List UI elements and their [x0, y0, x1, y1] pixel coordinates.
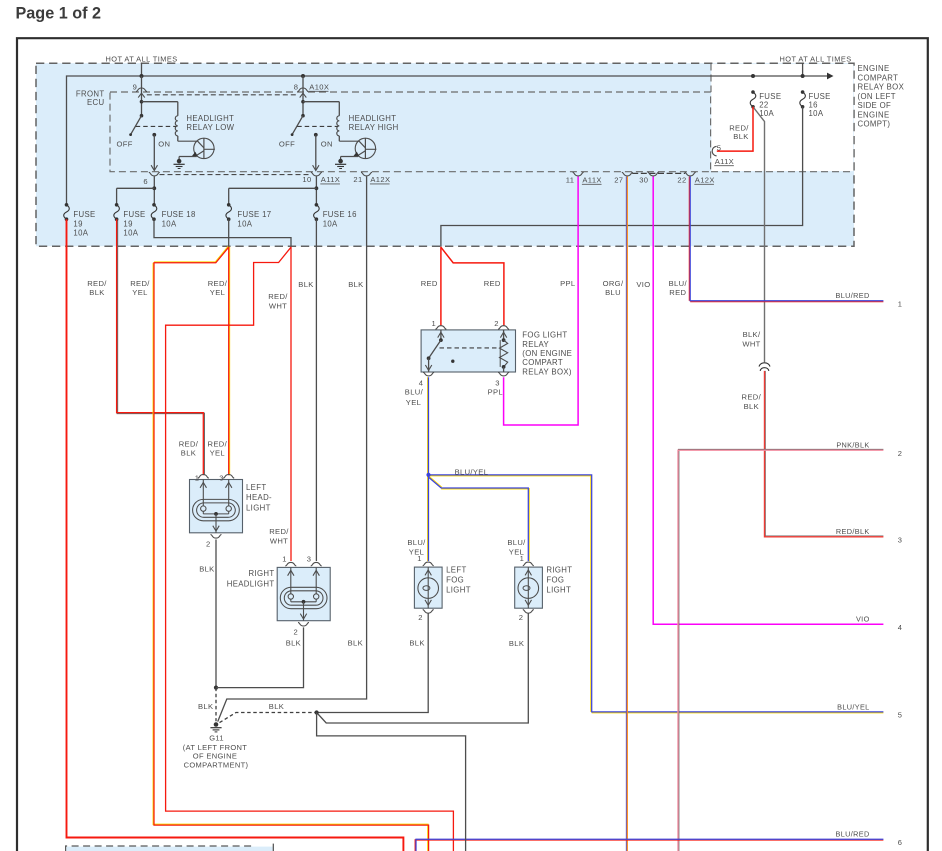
svg-text:BLU/: BLU/	[669, 279, 688, 288]
svg-text:BLK: BLK	[89, 288, 104, 297]
svg-text:BLU: BLU	[605, 288, 621, 297]
svg-text:BLK/: BLK/	[743, 330, 761, 339]
svg-text:3: 3	[495, 379, 500, 388]
svg-text:A12X: A12X	[695, 176, 715, 185]
svg-text:WHT: WHT	[742, 339, 760, 348]
svg-text:COMPT): COMPT)	[858, 120, 891, 129]
svg-text:BLK: BLK	[744, 402, 759, 411]
svg-text:1: 1	[195, 473, 200, 482]
svg-text:5: 5	[898, 711, 903, 720]
svg-text:3: 3	[307, 554, 312, 563]
svg-text:G11: G11	[209, 733, 224, 742]
svg-text:4: 4	[898, 623, 903, 632]
svg-text:BLU/RED: BLU/RED	[836, 291, 870, 300]
svg-text:RELAY BOX: RELAY BOX	[858, 83, 905, 92]
svg-text:HEADLIGHT: HEADLIGHT	[227, 579, 275, 588]
svg-text:BLK: BLK	[181, 449, 196, 458]
svg-text:PPL: PPL	[560, 279, 575, 288]
svg-text:HEADLIGHT: HEADLIGHT	[349, 114, 397, 123]
svg-text:FUSE 17: FUSE 17	[237, 210, 271, 219]
svg-text:Page 1 of 2: Page 1 of 2	[16, 5, 101, 23]
svg-text:10A: 10A	[323, 219, 338, 228]
svg-text:YEL: YEL	[406, 398, 421, 407]
svg-text:10A: 10A	[162, 219, 177, 228]
svg-text:OFF: OFF	[279, 139, 295, 148]
svg-text:1: 1	[432, 319, 437, 328]
svg-text:LEFT: LEFT	[246, 483, 266, 492]
svg-text:FUSE: FUSE	[73, 210, 95, 219]
svg-text:2: 2	[294, 628, 299, 637]
svg-text:BLK: BLK	[509, 639, 524, 648]
svg-text:6: 6	[898, 838, 903, 847]
svg-text:A11X: A11X	[321, 175, 340, 184]
svg-text:8: 8	[294, 83, 299, 92]
svg-text:2: 2	[418, 613, 423, 622]
svg-text:11: 11	[566, 176, 575, 185]
svg-text:30: 30	[639, 176, 648, 185]
svg-text:FUSE 18: FUSE 18	[162, 210, 196, 219]
svg-text:RIGHT: RIGHT	[248, 569, 274, 578]
svg-text:4: 4	[419, 379, 424, 388]
svg-text:RED/: RED/	[208, 279, 228, 288]
svg-text:RED/BLK: RED/BLK	[836, 527, 870, 536]
svg-text:YEL: YEL	[210, 288, 225, 297]
svg-text:COMPART: COMPART	[858, 73, 899, 82]
svg-text:2: 2	[898, 449, 903, 458]
svg-text:FOG LIGHT: FOG LIGHT	[522, 331, 567, 340]
svg-text:RIGHT: RIGHT	[546, 566, 572, 575]
svg-text:1: 1	[898, 299, 903, 308]
svg-text:FUSE: FUSE	[809, 92, 831, 101]
svg-text:RED/: RED/	[742, 393, 762, 402]
svg-text:ENGINE: ENGINE	[858, 110, 890, 119]
svg-text:OF ENGINE: OF ENGINE	[193, 752, 237, 761]
svg-text:BLU/: BLU/	[405, 388, 424, 397]
svg-text:ON: ON	[158, 139, 170, 148]
svg-text:RELAY: RELAY	[522, 340, 549, 349]
svg-text:PNK/BLK: PNK/BLK	[836, 441, 869, 450]
svg-text:COMPART: COMPART	[522, 358, 563, 367]
svg-text:BLK: BLK	[409, 639, 424, 648]
svg-text:(ON ENGINE: (ON ENGINE	[522, 349, 572, 358]
svg-text:FRONT: FRONT	[76, 89, 105, 98]
svg-text:BLU/: BLU/	[407, 538, 426, 547]
svg-text:ENGINE: ENGINE	[858, 64, 890, 73]
svg-text:3: 3	[898, 535, 903, 544]
svg-text:10: 10	[302, 175, 311, 184]
svg-text:2: 2	[494, 319, 499, 328]
svg-text:BLK: BLK	[298, 280, 313, 289]
svg-text:27: 27	[614, 176, 623, 185]
svg-text:FUSE: FUSE	[123, 210, 145, 219]
svg-text:LIGHT: LIGHT	[246, 503, 271, 512]
svg-text:RED: RED	[484, 279, 501, 288]
svg-text:1: 1	[282, 554, 287, 563]
svg-text:LEFT: LEFT	[446, 566, 466, 575]
svg-text:RED: RED	[421, 279, 438, 288]
svg-text:YEL: YEL	[132, 288, 147, 297]
svg-text:10A: 10A	[809, 109, 824, 118]
svg-text:WHT: WHT	[269, 302, 287, 311]
svg-text:FOG: FOG	[546, 576, 564, 585]
svg-text:FOG: FOG	[446, 576, 464, 585]
svg-text:6: 6	[143, 177, 148, 186]
svg-text:FUSE: FUSE	[759, 92, 781, 101]
svg-text:19: 19	[73, 219, 82, 228]
svg-text:10A: 10A	[123, 228, 138, 237]
svg-text:BLK: BLK	[348, 639, 363, 648]
svg-text:21: 21	[353, 175, 362, 184]
svg-text:SIDE OF: SIDE OF	[858, 101, 892, 110]
svg-text:A10X: A10X	[309, 83, 329, 92]
svg-text:VIO: VIO	[636, 280, 650, 289]
svg-text:HEADLIGHT: HEADLIGHT	[186, 114, 234, 123]
svg-text:BLK: BLK	[269, 702, 284, 711]
svg-text:BLK: BLK	[198, 702, 213, 711]
svg-text:PPL: PPL	[488, 388, 503, 397]
svg-text:BLU/YEL: BLU/YEL	[837, 702, 869, 711]
svg-text:RELAY LOW: RELAY LOW	[186, 123, 234, 132]
svg-text:BLU/YEL: BLU/YEL	[455, 467, 489, 476]
svg-text:RED/: RED/	[179, 439, 199, 448]
svg-text:2: 2	[519, 613, 524, 622]
svg-text:BLK: BLK	[286, 639, 301, 648]
svg-text:BLU/: BLU/	[507, 538, 526, 547]
svg-text:HOT AT ALL TIMES: HOT AT ALL TIMES	[780, 55, 852, 64]
svg-text:YEL: YEL	[210, 449, 225, 458]
svg-text:FUSE 16: FUSE 16	[323, 210, 357, 219]
svg-text:BLK: BLK	[199, 564, 214, 573]
svg-text:(ON LEFT: (ON LEFT	[858, 92, 896, 101]
svg-text:LIGHT: LIGHT	[546, 585, 571, 594]
svg-text:22: 22	[677, 176, 686, 185]
svg-text:YEL: YEL	[409, 547, 424, 556]
svg-text:HOT AT ALL TIMES: HOT AT ALL TIMES	[106, 55, 178, 64]
svg-text:10A: 10A	[73, 228, 88, 237]
svg-text:ON: ON	[321, 139, 333, 148]
svg-text:ORG/: ORG/	[603, 279, 624, 288]
svg-text:RELAY BOX): RELAY BOX)	[522, 367, 572, 376]
svg-text:LIGHT: LIGHT	[446, 585, 471, 594]
svg-text:RED/: RED/	[208, 439, 228, 448]
svg-text:BLK: BLK	[733, 132, 748, 141]
svg-text:HEAD-: HEAD-	[246, 493, 272, 502]
svg-text:RELAY HIGH: RELAY HIGH	[349, 123, 399, 132]
svg-text:RED/: RED/	[268, 292, 288, 301]
svg-text:BLK: BLK	[348, 280, 363, 289]
svg-text:3: 3	[219, 473, 224, 482]
svg-text:COMPARTMENT): COMPARTMENT)	[184, 760, 249, 769]
svg-text:WHT: WHT	[270, 537, 288, 546]
svg-text:2: 2	[206, 539, 211, 548]
svg-text:VIO: VIO	[856, 615, 870, 624]
svg-text:RED/: RED/	[130, 279, 150, 288]
svg-text:BLU/RED: BLU/RED	[836, 830, 870, 839]
svg-text:RED/: RED/	[729, 123, 749, 132]
svg-text:RED: RED	[669, 288, 686, 297]
svg-text:A11X: A11X	[582, 176, 601, 185]
svg-text:OFF: OFF	[117, 139, 133, 148]
svg-text:19: 19	[123, 219, 132, 228]
svg-text:10A: 10A	[237, 219, 252, 228]
svg-text:A12X: A12X	[370, 175, 390, 184]
svg-text:9: 9	[133, 83, 138, 92]
svg-text:A11X: A11X	[715, 157, 734, 166]
svg-text:YEL: YEL	[509, 547, 524, 556]
svg-text:ECU: ECU	[87, 98, 105, 107]
svg-text:RED/: RED/	[269, 527, 289, 536]
svg-text:RED/: RED/	[87, 279, 107, 288]
